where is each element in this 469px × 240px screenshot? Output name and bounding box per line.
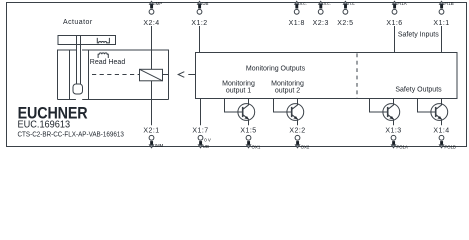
svg-text:UB: UB xyxy=(202,1,208,6)
transistor Q2 base wire xyxy=(274,99,292,113)
svg-text:X1:7: X1:7 xyxy=(192,127,208,134)
actuator bar xyxy=(58,36,116,45)
svg-text:n.c.: n.c. xyxy=(300,1,307,6)
transistor Q3 emitter wire xyxy=(393,119,395,125)
svg-text:X2:1: X2:1 xyxy=(143,127,159,134)
svg-text:output 2: output 2 xyxy=(275,88,300,95)
svg-text:output 1: output 1 xyxy=(226,88,251,95)
terminal X2:5 xyxy=(343,9,348,14)
svg-text:EUC.169613: EUC.169613 xyxy=(18,120,71,131)
svg-text:Actuator: Actuator xyxy=(63,19,93,26)
svg-text:n.c.: n.c. xyxy=(324,1,331,6)
wire block to read head xyxy=(188,74,195,76)
terminal X2:2 plug icon xyxy=(296,141,299,145)
wire X2:4 xyxy=(151,26,153,69)
transistor Q4 emitter wire xyxy=(441,119,443,125)
svg-text:Safety Outputs: Safety Outputs xyxy=(395,87,442,94)
terminal X1:8 plug icon xyxy=(295,1,299,4)
transistor Q1 xyxy=(238,104,255,121)
svg-text:FO1B: FO1B xyxy=(444,145,456,150)
terminal X1:6 xyxy=(392,9,397,14)
terminal X1:7 plug icon xyxy=(199,141,202,145)
svg-text:Monitoring Outputs: Monitoring Outputs xyxy=(246,66,306,73)
terminal X1:4 plug icon xyxy=(440,141,443,145)
transistor Q1 collector wire xyxy=(248,99,250,106)
terminal X2:3 plug icon xyxy=(319,1,323,4)
transistor Q2 xyxy=(287,104,304,121)
svg-text:Safety Inputs: Safety Inputs xyxy=(398,32,439,39)
svg-text:OX2: OX2 xyxy=(301,145,310,150)
transistor Q1 emitter wire xyxy=(248,119,250,125)
terminal X2:1 plug icon xyxy=(150,141,153,145)
svg-text:0 V: 0 V xyxy=(204,138,211,143)
transistor Q2 emitter wire xyxy=(297,119,299,125)
transistor Q4 collector wire xyxy=(441,99,443,106)
transfer element K1 xyxy=(140,69,163,81)
terminal X2:4 xyxy=(149,9,154,14)
transistor Q2 collector wire xyxy=(297,99,299,106)
transistor Q4 base wire xyxy=(418,99,436,113)
arrowhead xyxy=(178,72,184,78)
wire X1:6 xyxy=(394,26,396,53)
main block U1 xyxy=(196,53,458,99)
terminal X1:1 plug icon xyxy=(439,1,443,4)
svg-text:X2:5: X2:5 xyxy=(337,20,353,27)
actuator coil L1 xyxy=(97,38,109,43)
svg-text:n.c.: n.c. xyxy=(348,1,355,6)
transistor Q3 xyxy=(383,104,400,121)
svg-text:X1:8: X1:8 xyxy=(289,20,305,27)
dashed signal line xyxy=(92,74,139,76)
housing divider left xyxy=(69,50,71,100)
terminal X1:6 plug icon xyxy=(392,1,396,4)
svg-text:Read Head: Read Head xyxy=(90,59,126,66)
svg-text:X2:2: X2:2 xyxy=(289,127,305,134)
wire to X2:1 xyxy=(151,81,153,126)
svg-text:X1:5: X1:5 xyxy=(240,127,256,134)
terminal X1:8 xyxy=(294,9,299,14)
housing divider right xyxy=(88,50,90,100)
terminal X1:5 plug icon xyxy=(247,141,250,145)
terminal X1:2 plug icon xyxy=(197,1,201,4)
terminal X1:3 plug icon xyxy=(392,141,395,145)
svg-text:X1:4: X1:4 xyxy=(433,127,449,134)
terminal X2:3 xyxy=(318,9,323,14)
read head coil L2 xyxy=(98,53,108,58)
svg-text:FO1A: FO1A xyxy=(396,145,408,150)
read head housing xyxy=(58,50,169,100)
actuator rod xyxy=(77,36,81,85)
transistor Q1 base wire xyxy=(225,99,243,113)
terminal X1:2 xyxy=(197,9,202,14)
terminal X2:5 plug icon xyxy=(343,1,347,4)
terminal X2:4 plug icon xyxy=(149,1,153,4)
svg-text:Monitoring: Monitoring xyxy=(222,80,255,87)
transistor Q3 base wire xyxy=(370,99,388,113)
transistor Q4 xyxy=(431,104,448,121)
dashed section divider xyxy=(356,53,358,98)
svg-text:UB: UB xyxy=(203,144,209,149)
svg-text:FI1A: FI1A xyxy=(397,1,406,6)
svg-text:X1:3: X1:3 xyxy=(385,127,401,134)
svg-text:Monitoring: Monitoring xyxy=(271,80,304,87)
transistor Q3 collector wire xyxy=(393,99,395,106)
svg-text:CTS-C2-BR-CC-FLX-AP-VAB-169613: CTS-C2-BR-CC-FLX-AP-VAB-169613 xyxy=(18,131,124,138)
wire K1 to housing edge xyxy=(163,74,169,76)
svg-text:FI1B: FI1B xyxy=(444,1,453,6)
svg-text:IMP: IMP xyxy=(154,1,162,6)
svg-text:IMM: IMM xyxy=(155,143,164,148)
terminal X1:1 xyxy=(439,9,444,14)
wire X1:1 xyxy=(441,26,443,53)
locking ball xyxy=(73,84,83,94)
wire X1:2 xyxy=(199,26,201,53)
border frame xyxy=(7,3,467,147)
wire to X1:7 xyxy=(200,99,202,126)
svg-text:X2:3: X2:3 xyxy=(313,20,329,27)
svg-text:OX1: OX1 xyxy=(252,145,261,150)
